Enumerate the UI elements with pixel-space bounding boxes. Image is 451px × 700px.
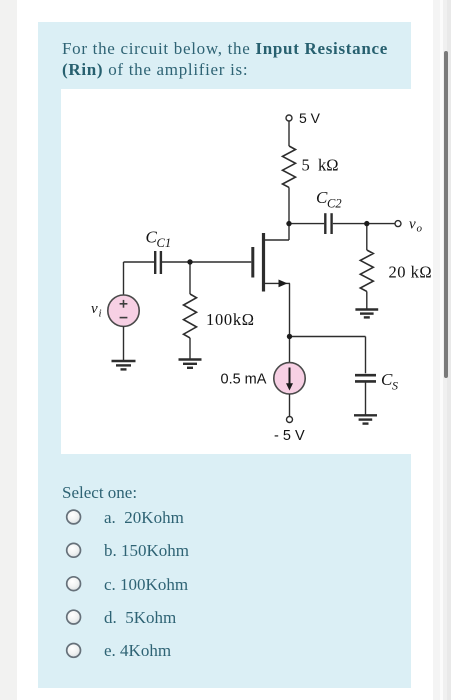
select one <box>62 483 137 503</box>
option d <box>104 608 176 628</box>
svg-text:v: v <box>91 301 98 317</box>
transistor Q1 gate bar <box>251 247 254 278</box>
transistor Q1 channel bar <box>262 233 265 292</box>
wire drain lead <box>265 239 289 241</box>
wire gate <box>162 261 251 263</box>
wire <box>365 381 367 414</box>
node output <box>364 221 369 226</box>
svg-text:S: S <box>392 379 398 393</box>
option c <box>104 575 188 595</box>
left gray strip <box>0 0 17 700</box>
wire source lead <box>265 282 290 284</box>
option e <box>104 641 171 661</box>
wire <box>123 262 125 295</box>
scrollbar thumb <box>444 51 448 378</box>
arrow of source lead <box>279 280 288 288</box>
svg-text:0.5 mA: 0.5 mA <box>221 372 267 388</box>
svg-text:C2: C2 <box>327 197 342 211</box>
wire <box>123 326 125 360</box>
svg-text:o: o <box>417 223 423 235</box>
wire <box>366 291 368 309</box>
capacitor CC1 <box>155 251 161 274</box>
ground <box>179 360 202 368</box>
resistor R3 100k <box>184 294 197 338</box>
node gate <box>187 259 192 264</box>
svg-text:v: v <box>409 217 416 233</box>
wire <box>288 187 290 240</box>
node 5V terminal <box>286 115 292 121</box>
wire <box>189 262 191 294</box>
circuit image white box <box>61 89 433 454</box>
question panel <box>38 22 411 688</box>
svg-text:5 kΩ: 5 kΩ <box>302 156 339 175</box>
source vi <box>108 295 139 326</box>
node vo terminal <box>395 221 401 227</box>
radio buttons <box>59 500 89 670</box>
svg-text:- 5 V: - 5 V <box>274 428 305 444</box>
question text <box>62 38 422 81</box>
wire <box>288 121 290 146</box>
option a <box>104 508 184 528</box>
node -5V terminal <box>287 417 293 423</box>
scrollbar track <box>433 0 451 700</box>
wire <box>366 224 368 250</box>
current source I1 <box>274 363 305 394</box>
option b <box>104 541 189 561</box>
arrow of current source <box>286 383 293 390</box>
svg-text:20 kΩ: 20 kΩ <box>389 263 433 282</box>
capacitor CC2 <box>325 213 331 234</box>
ground <box>355 310 378 318</box>
capacitor CS <box>355 375 376 381</box>
wire <box>333 223 395 225</box>
wire <box>124 261 155 263</box>
wire <box>289 283 291 362</box>
ground <box>112 361 136 369</box>
resistor R2 20k <box>360 250 373 291</box>
svg-text:i: i <box>99 308 102 320</box>
wire <box>189 338 191 359</box>
wire <box>365 337 367 374</box>
svg-text:5 V: 5 V <box>299 110 321 126</box>
wire <box>289 223 324 225</box>
junction dots <box>187 221 369 339</box>
svg-text:C1: C1 <box>157 236 172 250</box>
resistor R1 5k <box>283 146 296 187</box>
wire <box>289 394 291 416</box>
node drain <box>286 221 291 226</box>
node source <box>287 334 292 339</box>
svg-text:100kΩ: 100kΩ <box>206 310 255 329</box>
wire <box>290 336 366 338</box>
ground <box>354 415 377 423</box>
